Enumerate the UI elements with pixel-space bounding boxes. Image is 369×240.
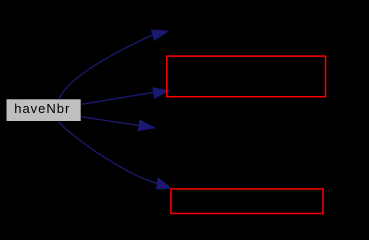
node haveNbr (current function, grey box) [6,99,81,122]
arrowhead 3 [138,120,155,131]
edge 1: haveNbr -> top node (wire) [59,35,153,99]
svg-text:haveNbr: haveNbr [14,101,70,116]
arrowhead 2 [153,88,170,99]
edge 4: haveNbr -> red box 2 (wire) [59,122,158,184]
edge 3: haveNbr -> middle node (wire) [81,117,139,126]
edge 2: haveNbr -> red box 1 (wire) [81,92,153,104]
arrowhead 1 [151,30,168,41]
arrowhead 4 [156,178,171,189]
red box 2 (truncated node) [171,189,323,214]
red box 1 (truncated node) [167,56,326,97]
